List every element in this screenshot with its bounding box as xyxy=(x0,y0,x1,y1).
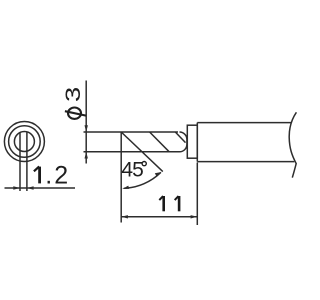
tip bottom extension line xyxy=(84,151,141,153)
hatch line B xyxy=(150,132,170,152)
angle arc lower arrow xyxy=(122,186,129,189)
bevel edge line extended to angle arc xyxy=(121,132,163,172)
angle arc upper arrow xyxy=(155,172,162,176)
label 1.2 xyxy=(34,162,70,190)
phi3 dimension vertical line xyxy=(85,81,87,164)
45 deg vertex vertical extension line xyxy=(120,132,122,223)
phi3 top arrow xyxy=(85,125,88,132)
tip body outline with rounded end xyxy=(141,132,187,152)
11 right extension line xyxy=(196,163,198,226)
end view middle circle xyxy=(9,126,41,158)
label 11 xyxy=(159,196,179,211)
arrow right of 1.2 xyxy=(27,186,34,189)
arrow left of 1.2 xyxy=(13,186,20,189)
label phi3 rotated xyxy=(62,87,86,119)
collar rectangle xyxy=(187,125,197,158)
shaft break squiggle xyxy=(289,112,296,177)
tip top edge + extension line xyxy=(84,131,179,133)
dimension line 1.2 xyxy=(5,187,76,189)
shaft top line xyxy=(197,122,291,124)
dimension line 11 xyxy=(121,216,197,218)
svg-text:45: 45 xyxy=(121,158,143,181)
flat left edge chord / extension line xyxy=(19,132,21,191)
flat right edge chord / extension line xyxy=(26,132,28,191)
hatch line C xyxy=(175,132,185,143)
arrow 11 left xyxy=(121,215,128,218)
phi3 bottom arrow xyxy=(85,152,88,159)
shaft bottom line xyxy=(197,161,294,163)
end view inner circle xyxy=(14,132,34,152)
svg-text:.2: .2 xyxy=(45,162,70,190)
shaft left edge xyxy=(196,123,198,162)
arrow 11 right xyxy=(191,215,198,218)
end view outer circle xyxy=(4,122,44,162)
45 deg angle arc xyxy=(124,172,161,188)
svg-text:3: 3 xyxy=(62,87,85,102)
